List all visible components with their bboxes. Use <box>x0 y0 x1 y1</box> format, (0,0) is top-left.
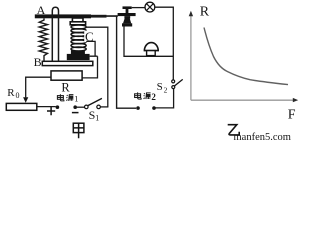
label power source 1 (dian yuan 1) <box>57 94 73 101</box>
solenoid C bottom cap <box>71 50 85 54</box>
wire screw contact to lamp <box>132 7 145 9</box>
spring <box>39 18 47 61</box>
svg-text:R: R <box>200 4 210 19</box>
iron bar B <box>42 61 93 65</box>
solenoid C coil windings <box>71 25 86 29</box>
battery plus sign <box>47 107 55 115</box>
svg-text:1: 1 <box>74 93 78 103</box>
graph x-axis <box>191 99 294 101</box>
svg-text:0: 0 <box>16 91 20 100</box>
source 2 terminal dot left <box>136 106 140 110</box>
battery terminal dot right <box>73 105 77 109</box>
R-F curve <box>204 28 288 85</box>
label jia (figure 1) <box>73 123 84 138</box>
svg-text:2: 2 <box>164 85 168 94</box>
rheostat R0 body <box>6 103 37 110</box>
graph y-axis <box>190 16 192 101</box>
svg-text:B: B <box>34 55 42 69</box>
wire S2 down to source 2 <box>156 89 174 108</box>
battery minus sign <box>72 112 79 114</box>
wire S1 to riser <box>100 106 108 108</box>
wire lower contact to bell <box>124 27 173 57</box>
svg-text:manfen5.com: manfen5.com <box>234 132 291 143</box>
label C <box>84 31 94 43</box>
label power source 2 (dian yuan 2) <box>135 92 151 99</box>
relay moving contact plate <box>118 13 136 16</box>
wire battery to switch S1 <box>77 106 85 108</box>
lower contact <box>124 16 130 18</box>
lamp <box>145 2 155 12</box>
upper screw contact <box>123 6 132 9</box>
wire rheostat to battery <box>37 106 56 108</box>
wire R to rheostat arrow <box>26 77 51 97</box>
svg-text:S: S <box>89 108 96 122</box>
wire coil top terminal to S1 side <box>86 27 108 107</box>
wire coil bottom terminal to R <box>82 41 97 78</box>
svg-text:2: 2 <box>151 92 156 102</box>
resistor R <box>51 71 82 80</box>
source 2 terminal dot right <box>152 106 156 110</box>
electric bell <box>144 43 158 51</box>
label yi (figure 2) <box>228 125 240 135</box>
svg-text:F: F <box>288 108 296 123</box>
armature bar A <box>35 14 91 18</box>
rheostat wiper arrowhead <box>23 97 28 103</box>
switch S2 <box>172 80 175 83</box>
wire armature plate down to source 2 <box>117 16 136 109</box>
svg-text:S: S <box>157 81 163 93</box>
switch S1 <box>85 105 89 109</box>
battery terminal dot left <box>56 105 60 109</box>
svg-text:R: R <box>61 81 70 95</box>
hanger hook over bar A <box>52 7 58 61</box>
svg-text:1: 1 <box>95 113 99 122</box>
svg-text:R: R <box>7 87 15 99</box>
wire lamp to right riser <box>155 7 174 80</box>
svg-text:A: A <box>37 3 46 17</box>
solenoid C top cap <box>72 18 83 22</box>
